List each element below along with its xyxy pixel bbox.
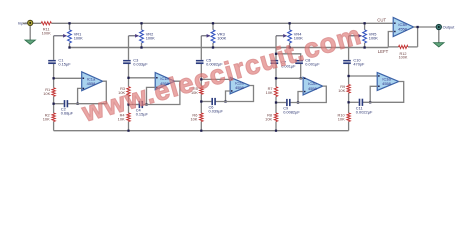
label C10 470pF	[353, 57, 365, 66]
wire opamp IC1a plus input hook	[78, 88, 82, 103]
svg-text:4558: 4558	[398, 27, 407, 32]
wire bottom rail	[54, 130, 349, 132]
junction stage1 hook	[76, 103, 78, 105]
label VR2 100K	[146, 31, 155, 40]
capacitor C4 0.15&#181;F	[139, 101, 144, 108]
watermark www.eleccircuit.com	[78, 20, 365, 128]
svg-text:CUT: CUT	[377, 18, 386, 23]
op-amp IC1b 4558	[155, 73, 175, 90]
label R6 10K	[190, 113, 197, 122]
label R1 10K	[43, 87, 50, 96]
label C9 0.0082&#181;F	[283, 106, 300, 115]
svg-text:0.68µF: 0.68µF	[61, 111, 74, 116]
junction VR1 bottom	[68, 46, 70, 48]
capacitor C1 0.15&#181;F	[48, 60, 56, 64]
svg-text:4558: 4558	[235, 85, 244, 90]
label C3 0.033&#181;F	[133, 57, 148, 66]
terminal input	[28, 20, 33, 25]
resistor R10 10K	[347, 113, 350, 122]
label C8 0.001&#181;F	[305, 57, 320, 66]
junction VR5 bottom	[363, 46, 365, 48]
potentiometer VR2 100K	[129, 23, 144, 47]
wire feedback to C6	[201, 101, 211, 103]
junction stage2 top input node	[127, 77, 129, 79]
ground output	[434, 43, 444, 47]
capacitor C3 0.033&#181;F	[123, 60, 131, 64]
junction stage1 feedback node	[52, 103, 54, 105]
capacitor C9 0.0082&#181;F	[286, 99, 291, 106]
junction C8 connector	[275, 53, 277, 55]
junction VR2 bottom	[140, 46, 142, 48]
op-amp IC3a 4558	[377, 73, 399, 91]
label C4 0.15&#181;F	[136, 108, 149, 117]
wire opamp IC2a plus input hook	[226, 91, 231, 102]
wire second rail LEFT bus	[70, 47, 389, 49]
svg-text:0.039µF: 0.039µF	[209, 109, 224, 114]
capacitor C2 0.68&#181;F	[64, 100, 68, 107]
junction VR5 top	[363, 22, 365, 24]
wire opamp IC2a top input	[201, 78, 230, 80]
resistor R5 10K	[200, 87, 203, 95]
svg-text:0.0082µF: 0.0082µF	[283, 110, 300, 115]
label VR4 100K	[294, 31, 303, 40]
wire input to R11	[23, 22, 42, 24]
junction VR3 top	[212, 22, 214, 24]
label R12 100K	[399, 52, 408, 60]
wire wiper VR1 to vertical	[53, 36, 55, 60]
wire feedback to C11	[349, 101, 359, 103]
svg-text:10K: 10K	[266, 90, 273, 95]
label R5 10K	[191, 86, 198, 95]
svg-text:4558: 4558	[87, 81, 96, 86]
wire below R10 to bottom rail	[348, 122, 350, 131]
junction stage2 hook	[145, 103, 147, 105]
junction stage4 top input node	[275, 77, 277, 79]
junction stage5 hook	[369, 101, 371, 103]
junction VR4 top	[288, 22, 290, 24]
op-amp IC2a 4558	[230, 77, 250, 94]
capacitor C10 470pF	[343, 60, 351, 64]
resistor R11 100K	[41, 22, 51, 25]
label VR3 100K	[217, 31, 226, 40]
junction stage4 hook	[297, 101, 299, 103]
junction VR1 top	[68, 22, 70, 24]
resistor R6 10K	[200, 113, 203, 122]
svg-text:10K: 10K	[43, 117, 50, 122]
wire below R9	[348, 93, 350, 102]
svg-text:100K: 100K	[369, 35, 378, 40]
label VR1 100K	[74, 31, 83, 40]
junction stage2 feedback node	[127, 103, 129, 105]
wire wiper VR4 to vertical	[275, 36, 277, 60]
label R8 10K	[265, 113, 272, 122]
wire below R5	[200, 94, 202, 101]
junction C8 branch bottom	[300, 77, 302, 79]
wire output ground stem	[438, 29, 440, 43]
wire opamp IC2a output feedback	[215, 86, 254, 102]
op-amp IC2b 4558	[303, 77, 323, 95]
svg-text:0.15µF: 0.15µF	[58, 61, 71, 66]
junction bottom rail stage4	[275, 130, 277, 132]
wire opamp IC1b top input	[129, 77, 156, 79]
ground input	[25, 40, 35, 44]
resistor R12 100K	[388, 45, 417, 48]
wire IC3b output	[414, 26, 437, 28]
junction VR2 top	[140, 22, 142, 24]
resistor R8 10K	[274, 113, 277, 122]
terminal output	[436, 24, 441, 29]
svg-text:100K: 100K	[399, 56, 408, 60]
junction output feedback	[416, 26, 418, 28]
label C7 0.001&#181;F	[281, 60, 296, 69]
wire below R1	[53, 96, 55, 103]
wire wiper VR2 to vertical	[128, 36, 130, 60]
label C5 0.0082&#181;F	[206, 57, 223, 66]
wire below C5	[200, 64, 202, 87]
wire opamp IC2b top input	[276, 77, 303, 79]
wire C8 branch down	[300, 64, 302, 78]
junction bottom rail stage3	[200, 130, 202, 132]
capacitor C7 0.001&#181;F	[271, 60, 279, 64]
wire R12 feedback up	[417, 27, 419, 47]
resistor R9 10K	[347, 85, 350, 94]
resistor R2 10K	[52, 113, 55, 122]
wire opamp IC1b plus input hook	[147, 87, 156, 104]
svg-text:0.0022µF: 0.0022µF	[356, 109, 373, 114]
capacitor C8 0.001&#181;F	[295, 60, 303, 64]
label C6 0.039&#181;F	[209, 105, 224, 114]
wire feedback to C4	[129, 104, 139, 106]
wire below C7	[275, 64, 277, 87]
svg-text:Output: Output	[443, 24, 456, 29]
junction stage5 top input node	[347, 75, 349, 77]
svg-text:LEFT: LEFT	[378, 49, 389, 54]
junction stage1 top input node	[52, 77, 54, 79]
capacitor C11 0.0022&#181;F	[359, 99, 364, 106]
wire opamp IC3a top input	[349, 75, 378, 77]
label R4 10K	[118, 113, 126, 122]
wire below R4 to bottom rail	[128, 122, 130, 131]
wire below node to R4	[128, 105, 130, 114]
label C11 0.0022&#181;F	[356, 105, 373, 114]
wire opamp IC1b output feedback	[142, 81, 180, 104]
wire opamp IC2b plus input hook	[298, 92, 303, 103]
junction VR3 bottom	[212, 46, 214, 48]
label R3 10K	[118, 86, 125, 95]
wire below node to R6	[200, 102, 202, 114]
junction stage5 feedback node	[347, 101, 349, 103]
resistor R7 10K	[274, 87, 277, 97]
resistor R4 10K	[127, 113, 130, 122]
junction stage3 hook	[224, 100, 226, 102]
svg-text:100K: 100K	[42, 31, 51, 36]
svg-text:100K: 100K	[217, 35, 226, 40]
wire below C1	[53, 64, 55, 88]
wire below C3	[128, 64, 130, 87]
label VR5 100K	[369, 31, 378, 40]
label R7 10K	[266, 86, 273, 95]
label C1 0.15&#181;F	[58, 57, 71, 66]
op-amp IC1a 4558	[82, 72, 103, 91]
svg-text:10K: 10K	[190, 117, 197, 122]
wire below R2 to bottom rail	[53, 122, 55, 131]
svg-text:0.033µF: 0.033µF	[133, 61, 148, 66]
junction stage4 feedback node	[275, 101, 277, 103]
wire wiper VR3 to vertical	[200, 36, 202, 60]
wire below node to R10	[348, 102, 350, 113]
capacitor C5 0.0082&#181;F	[196, 60, 204, 64]
wire IC3b minus input to LEFT rail	[388, 32, 393, 48]
wire input ground stem	[29, 25, 31, 40]
svg-text:10K: 10K	[265, 117, 272, 122]
label R2 10K	[43, 113, 50, 122]
wire opamp IC1a output feedback	[67, 81, 106, 104]
op-amp IC3b 4558	[393, 17, 413, 36]
wire wiper VR5 to vertical	[348, 36, 350, 60]
wire opamp IC3a output feedback	[362, 82, 404, 103]
svg-text:10K: 10K	[338, 88, 345, 93]
wire opamp IC1a top input	[54, 77, 82, 79]
potentiometer VR1 100K	[54, 23, 72, 47]
junction stage3 top input node	[200, 78, 202, 80]
wire opamp IC2b output feedback	[290, 86, 327, 102]
capacitor C6 0.039&#181;F	[211, 98, 216, 105]
wire below C10	[348, 64, 350, 85]
label R10 10K	[338, 113, 346, 122]
wire below node to R8	[275, 103, 277, 114]
svg-text:470pF: 470pF	[353, 61, 365, 66]
label R9 10K	[338, 84, 345, 93]
junction stage3 feedback node	[200, 100, 202, 102]
potentiometer VR4 100K	[276, 23, 292, 47]
junction VR4 bottom	[288, 46, 290, 48]
svg-text:100K: 100K	[146, 35, 155, 40]
svg-text:4558: 4558	[382, 81, 391, 86]
junction bottom rail stage2	[127, 130, 129, 132]
wire below R7	[275, 97, 277, 103]
wire top rail CUT bus	[51, 22, 393, 24]
wire below R3	[128, 96, 130, 104]
potentiometer VR3 100K	[201, 23, 215, 47]
wire opamp IC3a plus input hook	[370, 86, 377, 102]
label C2 0.68&#181;F	[61, 107, 74, 116]
resistor R3 10K	[127, 87, 130, 97]
potentiometer VR5 100K	[349, 23, 367, 47]
wire below node to R2	[53, 104, 55, 113]
wire below R8 to bottom rail	[275, 122, 277, 131]
svg-text:100K: 100K	[74, 35, 83, 40]
svg-text:4558: 4558	[308, 86, 317, 91]
svg-text:10K: 10K	[43, 91, 50, 96]
svg-text:10K: 10K	[338, 117, 345, 122]
wire feedback to C2	[54, 103, 64, 105]
wire below R6 to bottom rail	[200, 122, 202, 131]
wire C8 branch connector	[276, 54, 301, 60]
label R11 100K	[42, 27, 51, 36]
resistor R1 10K	[52, 88, 55, 97]
wire feedback to C9	[276, 102, 286, 104]
